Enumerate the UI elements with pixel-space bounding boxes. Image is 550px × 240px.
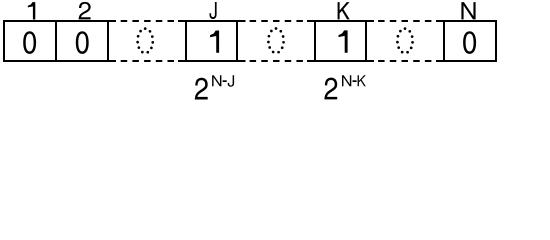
cell K index label "K" — [338, 2, 350, 19]
weight label 2^(N-J) under cell J — [195, 75, 234, 99]
cell 1 index label "1" — [28, 2, 36, 19]
cells 1-2 box outline — [3, 20, 116, 62]
cell K box outline — [307, 20, 374, 62]
dotted ellipsis placeholder 3 — [397, 29, 412, 53]
dashed wires between cell 2 and cell J — [121, 21, 174, 61]
dotted ellipsis placeholder 2 — [268, 29, 283, 53]
cell J box outline — [178, 20, 246, 62]
dotted ellipsis placeholder 1 — [138, 29, 153, 53]
dashed wires between cell J and cell K — [250, 21, 303, 61]
weight label 2^(N-K) under cell K — [324, 75, 365, 99]
cell N index label "N" — [461, 2, 475, 19]
cell K value "1" — [339, 30, 348, 52]
cell J index label "J" — [210, 2, 217, 19]
cell J value "1" — [210, 31, 219, 53]
cell N box outline — [436, 20, 497, 62]
cell 2 index label "2" — [79, 2, 91, 19]
cell 1 value "0" — [23, 31, 36, 54]
cell 2 value "0" — [76, 31, 89, 54]
dashed wires between cell K and cell N — [378, 21, 431, 61]
cell N value "0" — [463, 31, 476, 54]
